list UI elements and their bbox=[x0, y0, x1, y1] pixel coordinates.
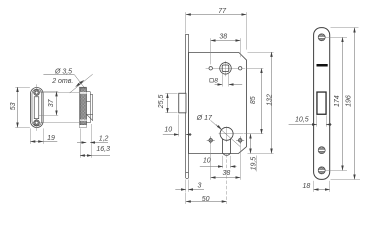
svg-text:19,5: 19,5 bbox=[251, 157, 258, 171]
svg-text:1,2: 1,2 bbox=[99, 135, 109, 142]
svg-text:25,5: 25,5 bbox=[158, 94, 165, 109]
svg-text:196: 196 bbox=[346, 95, 353, 107]
svg-text:53: 53 bbox=[10, 102, 17, 110]
svg-text:19: 19 bbox=[47, 135, 55, 142]
svg-text:Ø 17: Ø 17 bbox=[196, 115, 213, 122]
svg-text:77: 77 bbox=[218, 8, 227, 15]
svg-text:10,5: 10,5 bbox=[295, 116, 309, 123]
svg-text:8: 8 bbox=[214, 77, 218, 84]
svg-text:174: 174 bbox=[334, 95, 341, 107]
svg-text:Ø 3,5: Ø 3,5 bbox=[54, 69, 72, 76]
svg-text:37: 37 bbox=[48, 98, 55, 107]
svg-text:16,3: 16,3 bbox=[96, 146, 110, 153]
svg-text:18: 18 bbox=[303, 183, 311, 190]
svg-text:2 отв.: 2 отв. bbox=[51, 78, 73, 85]
svg-text:10: 10 bbox=[164, 126, 172, 133]
svg-text:10: 10 bbox=[203, 158, 211, 165]
svg-text:132: 132 bbox=[266, 94, 273, 106]
svg-text:50: 50 bbox=[202, 196, 210, 203]
svg-text:3: 3 bbox=[198, 183, 202, 190]
svg-text:38: 38 bbox=[219, 33, 227, 40]
svg-text:85: 85 bbox=[250, 96, 257, 104]
